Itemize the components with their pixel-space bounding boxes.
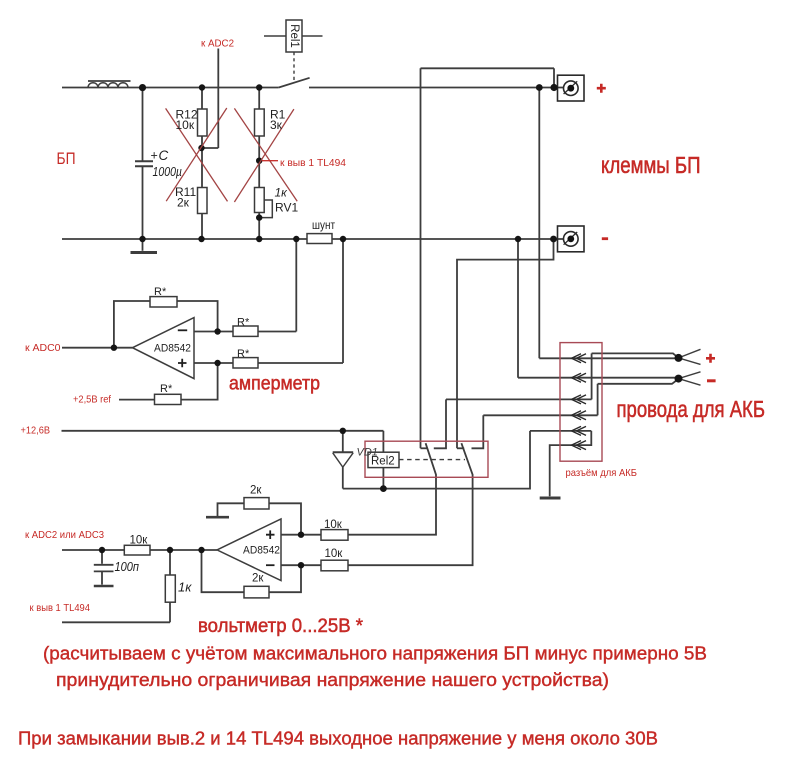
svg-text:RV1: RV1 [275, 201, 298, 215]
svg-text:к ADC2 или ADC3: к ADC2 или ADC3 [25, 529, 104, 541]
svg-text:+12,6В: +12,6В [21, 425, 51, 437]
svg-text:AD8542: AD8542 [154, 343, 191, 355]
svg-text:R*: R* [160, 383, 173, 395]
svg-text:2к: 2к [250, 485, 262, 497]
svg-text:БП: БП [57, 149, 76, 168]
svg-text:1к: 1к [275, 186, 289, 200]
svg-text:R*: R* [237, 348, 250, 360]
svg-text:10к: 10к [324, 519, 343, 531]
svg-text:C: C [159, 148, 169, 163]
svg-text:разъём для АКБ: разъём для АКБ [566, 467, 638, 479]
svg-text:R*: R* [154, 286, 167, 298]
svg-text:(расчитываем с учётом максимал: (расчитываем с учётом максимального напр… [43, 643, 707, 664]
svg-text:3к: 3к [270, 118, 283, 132]
svg-text:к выв 1 TL494: к выв 1 TL494 [30, 603, 91, 614]
svg-text:1000µ: 1000µ [153, 165, 183, 179]
svg-text:10к: 10к [130, 535, 149, 547]
svg-text:Rel1: Rel1 [288, 24, 300, 48]
svg-text:100п: 100п [115, 559, 140, 574]
svg-text:+2,5В ref: +2,5В ref [73, 394, 111, 406]
svg-text:к выв 1 TL494: к выв 1 TL494 [280, 157, 346, 169]
svg-text:к ADC2: к ADC2 [201, 38, 234, 50]
svg-text:принудительно ограничивая напр: принудительно ограничивая напряжение наш… [56, 669, 609, 690]
svg-text:1к: 1к [178, 580, 192, 595]
svg-text:амперметр: амперметр [229, 373, 320, 395]
svg-text:AD8542: AD8542 [243, 545, 280, 557]
svg-text:клеммы БП: клеммы БП [601, 152, 701, 178]
svg-text:Rel2: Rel2 [371, 456, 395, 468]
svg-text:10к: 10к [176, 118, 195, 132]
svg-text:2к: 2к [177, 196, 190, 210]
svg-text:2к: 2к [252, 573, 264, 585]
svg-text:При замыкании выв.2 и 14 TL494: При замыкании выв.2 и 14 TL494 выходное … [18, 728, 658, 749]
svg-text:R*: R* [237, 317, 250, 329]
svg-text:к ADC0: к ADC0 [25, 342, 61, 354]
svg-text:вольтметр 0...25В *: вольтметр 0...25В * [198, 615, 363, 637]
svg-text:провода для АКБ: провода для АКБ [617, 396, 766, 422]
svg-text:+: + [151, 149, 158, 163]
svg-text:шунт: шунт [312, 220, 336, 232]
svg-text:10к: 10к [325, 548, 344, 560]
